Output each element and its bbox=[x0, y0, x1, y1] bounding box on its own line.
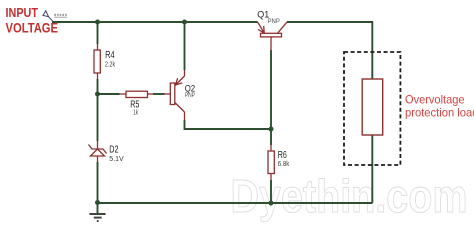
wire node A to R5 bbox=[98, 93, 120, 95]
svg-text:1k: 1k bbox=[133, 109, 138, 116]
wire node B to R6 bbox=[270, 129, 272, 145]
dashed box overvoltage protection load bbox=[344, 52, 400, 165]
svg-text:protection load: protection load bbox=[405, 106, 474, 120]
wire bottom rail bbox=[98, 202, 373, 204]
wire Q2 emitter branch from top rail bbox=[184, 22, 186, 70]
input terminal tiny net label bbox=[54, 14, 66, 16]
wire R4 bottom to node A bbox=[97, 79, 99, 94]
junction top rail / R4 bbox=[95, 20, 100, 25]
wire top rail right: Q1 collector to load corner bbox=[287, 22, 372, 79]
wire Q1 base to node B bbox=[270, 50, 272, 129]
ground bbox=[89, 214, 105, 221]
zener diode D2 bbox=[89, 141, 107, 162]
wire load bottom to bottom rail bbox=[371, 135, 373, 203]
wire R5 to Q2 base bbox=[153, 93, 165, 95]
junction top rail / Q2 emitter bbox=[182, 20, 187, 25]
load resistor (overvoltage protection load) bbox=[362, 79, 383, 135]
wire R4 branch down from top rail bbox=[97, 22, 99, 44]
wire top rail left: input to Q1 emitter bbox=[52, 21, 258, 23]
wire node A to D2 bbox=[97, 94, 99, 141]
wire R6 to bottom rail bbox=[270, 180, 272, 203]
junction R6 / bottom rail bbox=[269, 201, 274, 206]
svg-text:PNP: PNP bbox=[185, 93, 195, 99]
svg-text:R4: R4 bbox=[105, 50, 115, 61]
wire D2 to ground rail bbox=[97, 162, 99, 203]
junction ground rail bbox=[95, 200, 100, 205]
input terminal (port flag) bbox=[43, 11, 53, 22]
svg-text:VOLTAGE: VOLTAGE bbox=[6, 20, 59, 36]
svg-text:PNP: PNP bbox=[268, 19, 280, 25]
svg-text:Dyethin.com: Dyethin.com bbox=[231, 170, 468, 222]
svg-text:Overvoltage: Overvoltage bbox=[405, 93, 465, 107]
resistor R5 bbox=[120, 91, 154, 97]
svg-text:6.8k: 6.8k bbox=[278, 161, 290, 168]
junction node A bbox=[95, 92, 100, 97]
svg-text:5.1V: 5.1V bbox=[109, 154, 123, 163]
junction node B bbox=[269, 127, 274, 132]
wire ground stub bbox=[97, 203, 99, 214]
transistor Q2 bbox=[164, 70, 185, 120]
resistor R4 bbox=[94, 44, 100, 79]
svg-text:R6: R6 bbox=[278, 150, 287, 161]
wire Q2 collector to node B bbox=[185, 120, 272, 129]
transistor Q1 bbox=[258, 22, 288, 50]
svg-text:2.2k: 2.2k bbox=[105, 62, 116, 69]
resistor R6 bbox=[268, 145, 274, 180]
svg-text:INPUT: INPUT bbox=[6, 6, 39, 20]
